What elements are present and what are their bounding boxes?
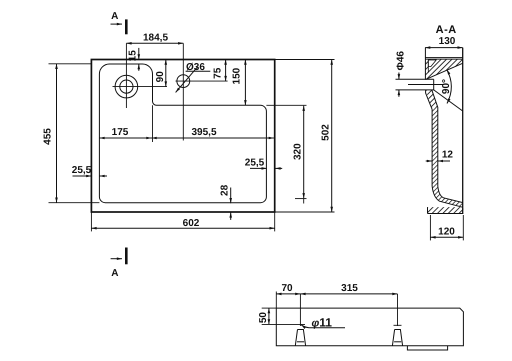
dim 90 [155, 60, 166, 87]
tap hole label underline [186, 70, 211, 72]
plan inner bowl outline [99, 64, 266, 203]
section bowl floor wall hatch [432, 107, 438, 186]
svg-text:395,5: 395,5 [191, 127, 216, 138]
section top hatch band [425, 59, 463, 79]
section left lower profile [426, 90, 463, 207]
section marker A bottom [111, 248, 127, 265]
drain centerline vertical [125, 43, 127, 108]
fixing lug right [392, 294, 402, 346]
svg-text:15: 15 [127, 50, 138, 62]
tap hole centerline vertical [182, 43, 184, 140]
plan outer rim rectangle [91, 60, 274, 213]
section outline left edge [424, 48, 426, 80]
section marker A top [111, 19, 127, 34]
svg-text:120: 120 [438, 227, 455, 238]
dim 15 [127, 48, 139, 71]
dim 150 [231, 60, 245, 106]
drain axis centerline [408, 84, 444, 86]
cone upper face / shoulder line [425, 63, 463, 79]
section rim inner vertical line [427, 59, 429, 72]
svg-text:320: 320 [292, 143, 303, 160]
dim 395,5 [152, 127, 274, 138]
tap hole leader line [176, 67, 198, 92]
svg-text:φ11: φ11 [312, 316, 333, 330]
dim phi46 [395, 51, 406, 97]
svg-text:Ø36: Ø36 [186, 62, 205, 73]
dim 70 [276, 283, 300, 308]
svg-text:50: 50 [258, 312, 269, 324]
svg-text:Φ46: Φ46 [395, 51, 406, 71]
dim 75 [212, 60, 225, 82]
drain hole lower line [396, 89, 434, 91]
section floor inner profile [432, 90, 463, 203]
drain hole inner circle [120, 80, 133, 93]
tap hole centerline horizontal [176, 80, 228, 82]
dim 315 [300, 283, 397, 294]
cone lower face [434, 90, 463, 111]
dim 28 [220, 184, 231, 219]
step extension line to 320 dim [266, 104, 306, 106]
svg-text:175: 175 [112, 127, 129, 138]
drain hole outer circle [115, 75, 138, 98]
dim 120 [430, 215, 463, 240]
dim 455 [42, 64, 99, 203]
svg-text:A: A [111, 11, 118, 22]
section band top boundary [425, 58, 463, 60]
dim 175 [99, 105, 152, 142]
dim 130 [425, 36, 463, 47]
svg-text:25,5: 25,5 [72, 165, 92, 176]
angle 90 arc [447, 70, 452, 104]
svg-text:12: 12 [442, 150, 454, 161]
section bottom edge [428, 213, 464, 215]
dim 320 [292, 106, 306, 204]
section outline right edge [462, 48, 464, 214]
section front-left edge [427, 207, 429, 213]
svg-text:130: 130 [439, 36, 456, 47]
section cone lower wall hatch [426, 90, 438, 109]
svg-text:315: 315 [341, 283, 358, 294]
dim 502 [275, 60, 335, 213]
dim 25,5 left [72, 165, 107, 176]
bottom view drain boss [407, 346, 447, 350]
svg-text:25,5: 25,5 [245, 157, 265, 168]
svg-text:455: 455 [42, 128, 53, 145]
dim 184,5 [126, 32, 183, 43]
svg-text:184,5: 184,5 [143, 32, 168, 43]
svg-text:602: 602 [183, 218, 200, 229]
dim 25,5 right [245, 157, 282, 168]
tap hole circle [177, 75, 190, 88]
section hatch white notch [428, 60, 436, 67]
bottom view body outline [276, 308, 463, 346]
dim 50 [258, 308, 305, 324]
svg-text:A-A: A-A [436, 24, 457, 36]
drain hole end wall [433, 79, 435, 90]
section front rim hatch [428, 207, 464, 213]
svg-text:90°: 90° [441, 79, 452, 94]
drain centerline horizontal [113, 86, 168, 88]
svg-text:70: 70 [281, 283, 293, 294]
svg-text:150: 150 [231, 67, 242, 84]
svg-text:75: 75 [212, 67, 223, 79]
svg-text:90: 90 [155, 71, 166, 83]
svg-text:A: A [111, 268, 118, 279]
drain hole upper line [396, 78, 434, 80]
dim 12 [426, 150, 454, 162]
svg-text:28: 28 [220, 184, 231, 196]
dim 602 [91, 212, 274, 231]
section outline top edge [425, 57, 462, 59]
fixing lug left [295, 294, 305, 346]
label phi11 [301, 316, 345, 330]
section bowl floor bend hatch [432, 186, 463, 207]
svg-text:502: 502 [321, 124, 332, 141]
